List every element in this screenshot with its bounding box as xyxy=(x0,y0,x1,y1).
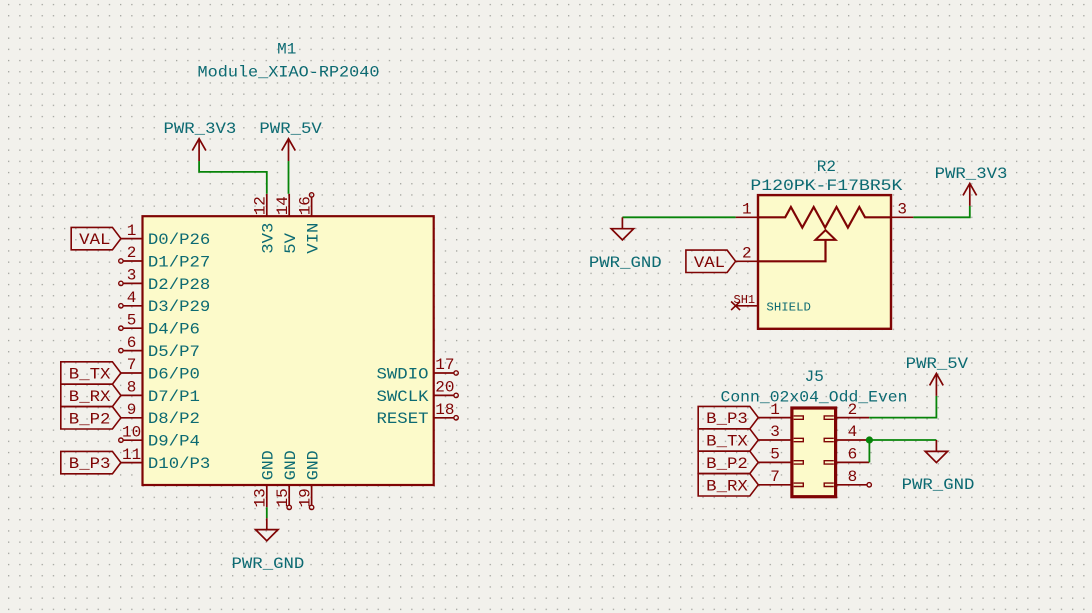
svg-text:D0/P26: D0/P26 xyxy=(148,231,210,249)
svg-text:3: 3 xyxy=(770,423,780,441)
svg-text:GND: GND xyxy=(260,450,278,480)
svg-text:5: 5 xyxy=(770,446,780,464)
svg-text:1: 1 xyxy=(742,201,752,219)
svg-text:SWCLK: SWCLK xyxy=(377,388,429,406)
svg-text:14: 14 xyxy=(274,196,292,215)
svg-text:PWR_GND: PWR_GND xyxy=(902,476,975,494)
svg-text:7: 7 xyxy=(770,468,780,486)
svg-text:15: 15 xyxy=(274,488,292,507)
svg-text:J5: J5 xyxy=(805,368,824,386)
svg-text:D8/P2: D8/P2 xyxy=(148,410,200,428)
svg-text:GND: GND xyxy=(282,450,300,480)
svg-text:2: 2 xyxy=(742,245,752,263)
svg-text:R2: R2 xyxy=(817,158,836,176)
svg-text:D6/P0: D6/P0 xyxy=(148,365,200,383)
svg-text:2: 2 xyxy=(127,244,137,262)
svg-text:7: 7 xyxy=(127,356,137,374)
svg-text:GND: GND xyxy=(304,450,322,480)
svg-text:PWR_GND: PWR_GND xyxy=(589,254,662,272)
svg-text:D7/P1: D7/P1 xyxy=(148,388,200,406)
svg-text:3: 3 xyxy=(127,267,137,285)
svg-text:D3/P29: D3/P29 xyxy=(148,298,210,316)
svg-text:12: 12 xyxy=(252,196,270,215)
svg-text:B_P3: B_P3 xyxy=(69,455,111,473)
svg-text:B_P2: B_P2 xyxy=(706,455,748,473)
svg-text:D2/P28: D2/P28 xyxy=(148,276,210,294)
svg-text:8: 8 xyxy=(848,468,858,486)
svg-text:PWR_3V3: PWR_3V3 xyxy=(935,165,1008,183)
svg-text:RESET: RESET xyxy=(377,410,429,428)
svg-text:6: 6 xyxy=(127,334,137,352)
svg-text:D4/P6: D4/P6 xyxy=(148,321,200,339)
svg-text:3: 3 xyxy=(897,201,907,219)
svg-text:VIN: VIN xyxy=(304,223,322,254)
svg-text:B_RX: B_RX xyxy=(706,477,748,495)
svg-text:2: 2 xyxy=(848,401,858,419)
svg-text:B_TX: B_TX xyxy=(706,433,748,451)
svg-text:D9/P4: D9/P4 xyxy=(148,433,200,451)
svg-text:1: 1 xyxy=(770,401,780,419)
svg-text:PWR_5V: PWR_5V xyxy=(906,355,969,373)
svg-text:4: 4 xyxy=(848,423,858,441)
svg-text:PWR_GND: PWR_GND xyxy=(232,555,305,573)
svg-text:D1/P27: D1/P27 xyxy=(148,253,210,271)
svg-text:SHIELD: SHIELD xyxy=(766,301,811,315)
svg-text:B_P2: B_P2 xyxy=(69,410,111,428)
svg-text:16: 16 xyxy=(296,196,314,215)
svg-text:VAL: VAL xyxy=(79,231,110,249)
svg-text:B_RX: B_RX xyxy=(69,388,111,406)
svg-text:6: 6 xyxy=(848,446,858,464)
svg-text:D5/P7: D5/P7 xyxy=(148,343,200,361)
svg-text:Conn_02x04_Odd_Even: Conn_02x04_Odd_Even xyxy=(721,388,908,406)
svg-text:9: 9 xyxy=(127,401,137,419)
svg-text:18: 18 xyxy=(435,401,454,419)
svg-text:11: 11 xyxy=(122,446,141,464)
svg-text:10: 10 xyxy=(122,423,141,441)
svg-text:P120PK-F17BR5K: P120PK-F17BR5K xyxy=(750,177,902,195)
svg-text:3V3: 3V3 xyxy=(260,223,278,254)
svg-text:M1: M1 xyxy=(277,41,296,59)
svg-text:PWR_5V: PWR_5V xyxy=(259,120,322,138)
svg-text:VAL: VAL xyxy=(694,254,725,272)
svg-text:19: 19 xyxy=(296,488,314,507)
svg-text:5: 5 xyxy=(127,311,137,329)
svg-text:PWR_3V3: PWR_3V3 xyxy=(163,120,236,138)
svg-text:17: 17 xyxy=(435,356,454,374)
svg-text:5V: 5V xyxy=(282,233,300,254)
svg-text:4: 4 xyxy=(127,289,137,307)
svg-text:1: 1 xyxy=(127,222,137,240)
svg-text:Module_XIAO-RP2040: Module_XIAO-RP2040 xyxy=(198,63,380,81)
svg-text:SWDIO: SWDIO xyxy=(377,365,429,383)
svg-text:13: 13 xyxy=(252,488,270,507)
svg-text:B_TX: B_TX xyxy=(69,366,111,384)
svg-text:8: 8 xyxy=(127,379,137,397)
svg-text:D10/P3: D10/P3 xyxy=(148,455,210,473)
svg-text:B_P3: B_P3 xyxy=(706,410,748,428)
svg-text:20: 20 xyxy=(435,379,454,397)
